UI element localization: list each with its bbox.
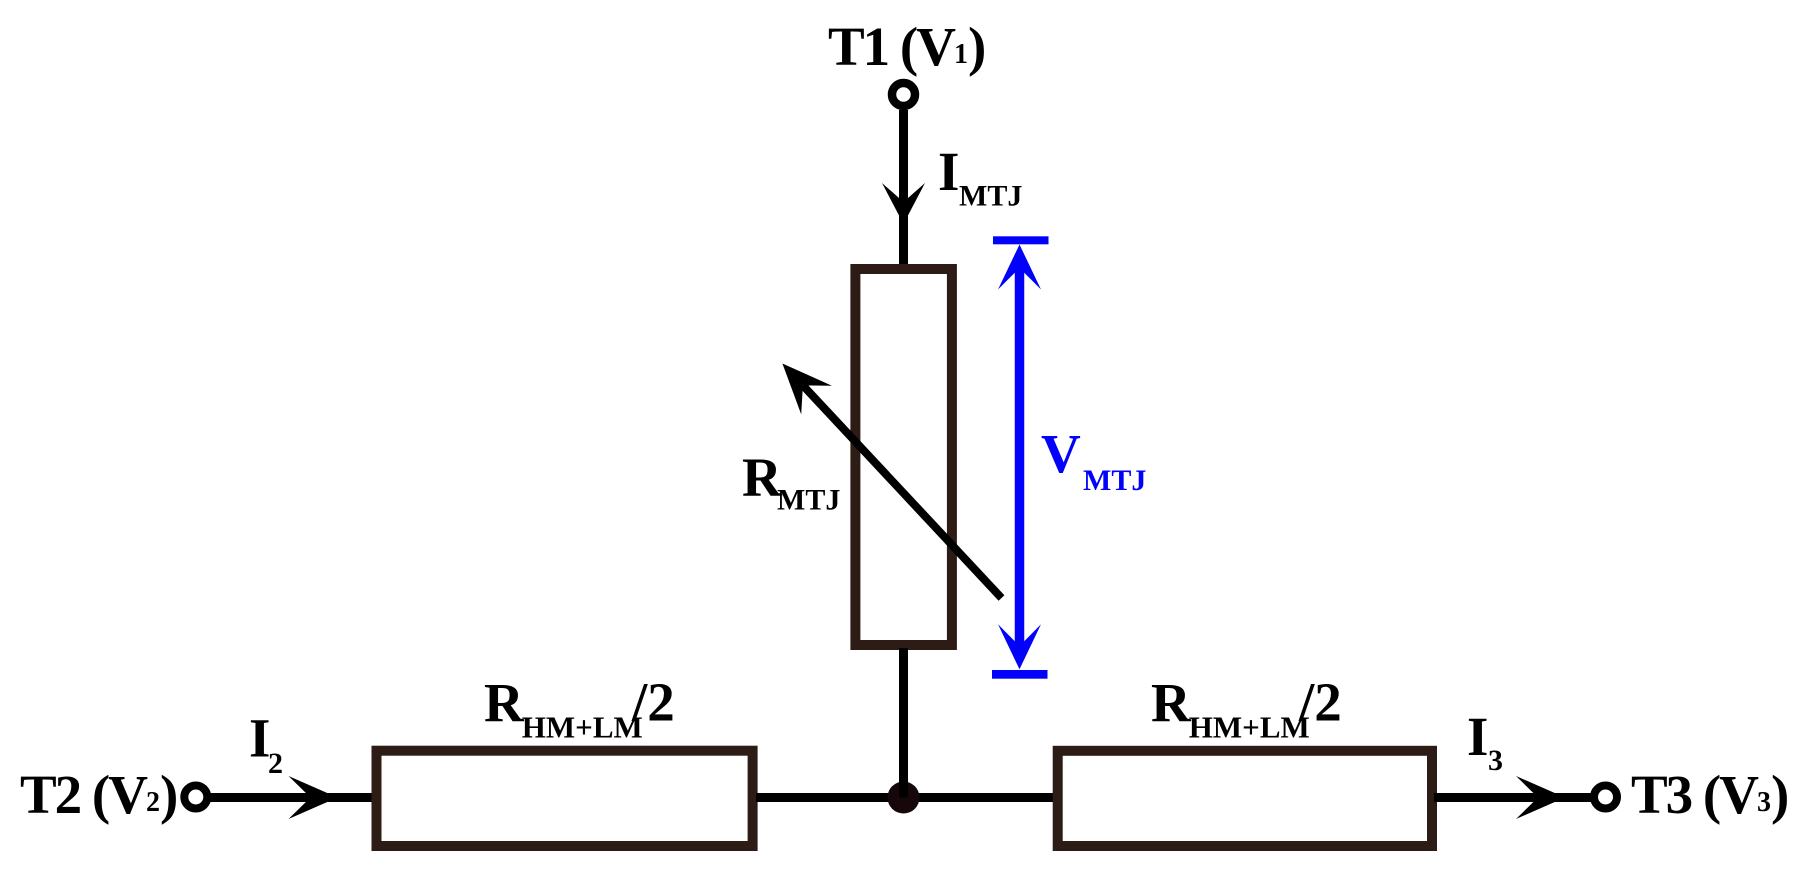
- svg-text:HM+LM: HM+LM: [522, 710, 643, 745]
- svg-text:R: R: [1151, 673, 1192, 734]
- wire T2 to R1: [208, 793, 376, 802]
- variable-resistor diagonal wire: [803, 386, 1002, 599]
- svg-text:R: R: [484, 673, 525, 734]
- junction node: [888, 782, 920, 814]
- svg-text:/2: /2: [1298, 672, 1342, 733]
- current arrow I3: [1516, 776, 1565, 819]
- label R2 value: [1151, 672, 1342, 745]
- node T3 label: [1631, 764, 1787, 825]
- svg-text:I: I: [1467, 706, 1488, 767]
- terminal T1: [892, 83, 915, 106]
- variable-resistor arrowhead: [782, 364, 832, 415]
- current arrow I2: [289, 776, 338, 819]
- resistor R2 (RHM+LM/2 right): [1058, 751, 1432, 846]
- svg-text:T2 (V2): T2 (V2): [20, 764, 176, 825]
- resistor R1 (RHM+LM/2 left): [377, 751, 753, 846]
- voltage marker VMTJ up arrowhead: [998, 245, 1041, 290]
- node T2 label: [20, 764, 176, 825]
- svg-text:/2: /2: [631, 672, 675, 733]
- current arrow IMTJ: [882, 183, 925, 224]
- wire R1 to junction to R2: [756, 793, 1054, 802]
- label I2: [249, 707, 283, 780]
- voltage marker VMTJ top bar: [993, 236, 1049, 244]
- label VMTJ: [1041, 423, 1146, 497]
- svg-text:3: 3: [1488, 744, 1503, 777]
- svg-text:MTJ: MTJ: [777, 484, 840, 517]
- wire T1 to RMTJ: [899, 110, 908, 269]
- node T1 label: [828, 16, 984, 77]
- svg-text:I: I: [938, 141, 959, 202]
- svg-text:MTJ: MTJ: [1083, 464, 1146, 497]
- voltage marker VMTJ down arrowhead: [998, 624, 1041, 669]
- resistor RMTJ (variable): [855, 269, 952, 645]
- label I3: [1467, 706, 1503, 777]
- label IMTJ: [938, 141, 1022, 213]
- label RMTJ: [742, 447, 840, 517]
- svg-text:2: 2: [268, 747, 283, 780]
- svg-text:T3 (V3): T3 (V3): [1631, 764, 1787, 825]
- label R1 value: [484, 672, 675, 745]
- wire RMTJ to junction: [899, 648, 908, 798]
- voltage marker VMTJ shaft: [1015, 262, 1025, 652]
- voltage marker VMTJ bottom bar: [992, 670, 1048, 679]
- svg-text:V: V: [1041, 423, 1081, 484]
- svg-text:T1 (V1): T1 (V1): [828, 16, 984, 77]
- svg-text:MTJ: MTJ: [959, 180, 1022, 213]
- svg-text:HM+LM: HM+LM: [1189, 710, 1310, 745]
- terminal T2: [184, 786, 207, 809]
- wire R2 to T3: [1434, 793, 1592, 802]
- terminal T3: [1594, 786, 1617, 809]
